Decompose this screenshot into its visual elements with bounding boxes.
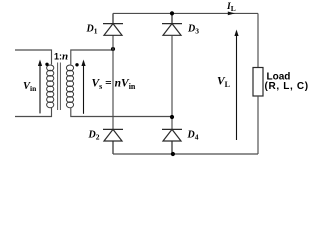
wire top rail bbox=[113, 12, 258, 14]
svg-text:1:n: 1:n bbox=[54, 50, 68, 62]
wire secondary top bbox=[71, 50, 113, 65]
wire primary bottom bbox=[15, 108, 52, 117]
svg-text:(R, L, C): (R, L, C) bbox=[265, 81, 309, 92]
svg-text:Vs = nVin: Vs = nVin bbox=[92, 77, 136, 91]
diode D2 bbox=[103, 129, 123, 154]
polarity dot secondary bbox=[75, 63, 78, 66]
wire bottom rail bbox=[113, 153, 258, 155]
wire right bridge leg bbox=[171, 35, 173, 129]
diode D4 bbox=[162, 129, 182, 154]
wire right leg top bbox=[257, 13, 259, 67]
junction node secondary bottom / D4 anode bbox=[170, 115, 174, 119]
voltage arrow VL bbox=[236, 34, 238, 141]
junction node bottom rail / D4 anode bottom bbox=[171, 152, 175, 156]
junction node top rail / D3 cathode bbox=[170, 11, 174, 15]
primary winding bbox=[47, 65, 54, 108]
junction node secondary top / D1 anode bbox=[111, 47, 115, 51]
voltage arrow Vin bbox=[39, 65, 41, 114]
svg-text:IL: IL bbox=[226, 2, 236, 13]
svg-text:Vin: Vin bbox=[23, 81, 37, 93]
wire right leg bottom bbox=[257, 96, 259, 154]
load box bbox=[253, 68, 263, 97]
wire primary top bbox=[15, 50, 52, 65]
diode D1 bbox=[103, 13, 123, 35]
wire left bridge leg bbox=[112, 35, 114, 129]
svg-text:D1: D1 bbox=[86, 24, 98, 36]
transformer core bbox=[58, 63, 61, 111]
current arrow IL bbox=[228, 12, 235, 16]
svg-text:D3: D3 bbox=[187, 24, 199, 36]
voltage arrow Vs bbox=[83, 65, 85, 114]
secondary winding bbox=[66, 65, 73, 108]
svg-text:D2: D2 bbox=[88, 130, 100, 142]
wire secondary bottom bbox=[71, 108, 172, 117]
svg-text:VL: VL bbox=[217, 76, 230, 90]
polarity dot primary bbox=[45, 63, 48, 66]
diode D3 bbox=[162, 13, 182, 35]
svg-text:D4: D4 bbox=[187, 130, 199, 142]
